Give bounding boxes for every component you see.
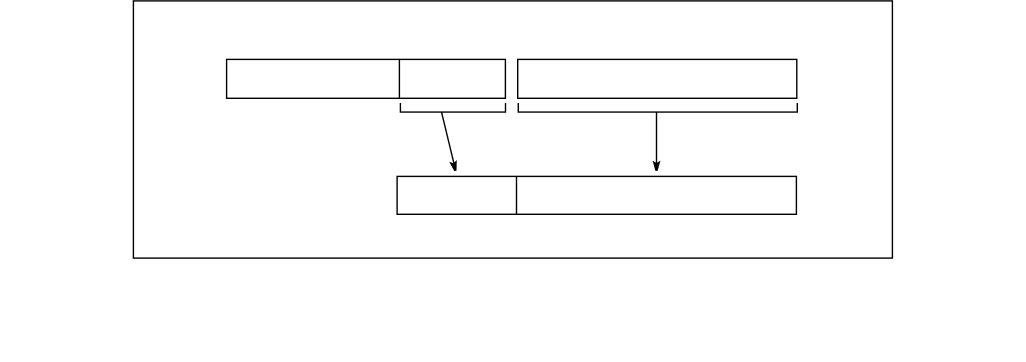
bracket under top-right box — [518, 103, 797, 112]
arrowhead of vertical arrow — [653, 161, 661, 171]
arrow: slanted, from left bracket to bottom-left cell — [442, 112, 455, 164]
bracket under right part of top-left box — [400, 103, 505, 112]
box: bottom result pair — [397, 176, 796, 214]
arrow: vertical, from right bracket to bottom-right cell — [656, 112, 658, 164]
box: top-left field pair — [227, 59, 506, 98]
figure frame — [133, 1, 892, 258]
divider in bottom box — [516, 176, 518, 214]
arrowhead of slanted arrow — [449, 160, 457, 171]
divider in top-left box — [398, 59, 400, 98]
box: top-right field — [518, 59, 797, 98]
